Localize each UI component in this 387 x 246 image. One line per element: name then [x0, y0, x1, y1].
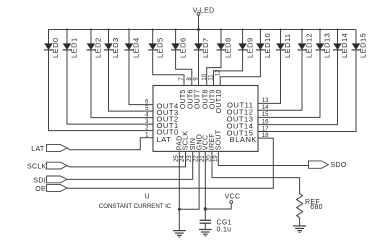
wire LED3 to pin 5 OUT3 — [109, 50, 154, 111]
junction V-LED rail — [66, 28, 339, 31]
wire LED1 to pin 3 OUT1 — [67, 50, 153, 124]
wire LED7 to pin 9 OUT7 — [198, 50, 200, 86]
LED D13 (LED13) — [316, 30, 332, 59]
resistor REF 680 — [297, 194, 323, 218]
wire LED0 to pin 2 OUT0 — [49, 50, 154, 131]
svg-text:SOUT: SOUT — [216, 129, 223, 150]
svg-text:LED13: LED13 — [323, 33, 332, 58]
capacitor CG1 0.1u — [200, 219, 232, 233]
LED D3 (LED3) — [104, 30, 120, 59]
LED D5 (LED5) — [148, 30, 164, 59]
wire LED14 to pin 16 OUT14 — [258, 50, 338, 125]
wire VCC terminal branch — [205, 204, 231, 209]
wire LAT to pin 1 — [67, 138, 153, 150]
wire PAD pin 25 down — [178, 151, 180, 230]
wire SCLK to pin 24 — [67, 151, 186, 167]
power terminal VCC — [225, 194, 241, 204]
port SDO — [309, 161, 347, 169]
wire SOUT pin 19 to SDO — [218, 151, 308, 165]
LED D15 (LED15) — [352, 30, 368, 59]
wire LED15 to pin 17 OUT15 — [258, 50, 356, 132]
pin numbers 13-18 right — [262, 98, 269, 139]
svg-text:SDI: SDI — [33, 178, 46, 185]
svg-text:LED15: LED15 — [359, 33, 368, 58]
LED D9 (LED9) — [238, 30, 254, 59]
pin numbers 1-6 left — [145, 99, 149, 138]
LED D11 (LED11) — [276, 30, 292, 59]
LED D1 (LED1) — [63, 30, 79, 59]
wire LED2 to pin 4 OUT2 — [91, 50, 153, 118]
IC pin names left OUT4-OUT0 LAT — [157, 102, 179, 144]
svg-text:V-LED: V-LED — [193, 7, 215, 14]
LED D10 (LED10) — [256, 30, 272, 59]
power terminal V-LED — [193, 7, 215, 29]
svg-text:SDO: SDO — [331, 162, 347, 169]
LED D12 (LED12) — [298, 30, 314, 59]
svg-text:12: 12 — [215, 69, 221, 76]
port OE — [35, 185, 67, 193]
wire LED13 to pin 15 OUT13 — [258, 50, 320, 118]
ground at REF — [293, 226, 306, 232]
wire VCC pin 21 down — [204, 151, 206, 220]
LED D7 (LED7) — [194, 30, 210, 59]
svg-text:LED1: LED1 — [70, 37, 79, 58]
svg-text:U: U — [145, 193, 150, 200]
wire GND pin 22 to PAD wire — [179, 151, 199, 209]
svg-text:0.1u: 0.1u — [217, 227, 232, 234]
IC pin names bottom PAD SCLK SIN GND VCC IREF SOUT — [177, 129, 223, 150]
IC pin names right OUT11-OUT15 BLANK — [227, 100, 257, 144]
svg-text:BLANK: BLANK — [230, 135, 257, 144]
IC reference designator U — [145, 193, 150, 200]
port SDI — [33, 176, 67, 185]
svg-text:LED2: LED2 — [94, 37, 103, 58]
svg-text:LED5: LED5 — [155, 37, 164, 58]
wire LED5 to pin 7 OUT5 — [153, 50, 184, 86]
wire LED12 to pin 14 OUT12 — [258, 50, 302, 110]
svg-text:10: 10 — [202, 73, 208, 80]
ground at CG1 — [199, 230, 212, 236]
ground at PAD — [173, 231, 186, 237]
svg-text:CONSTANT CURRENT IC: CONSTANT CURRENT IC — [99, 203, 171, 210]
wire V-LED anode rail — [49, 29, 357, 31]
svg-text:SCLK: SCLK — [183, 131, 190, 151]
LED D2 (LED2) — [87, 30, 103, 59]
wire LED4 to pin 6 OUT4 — [129, 50, 153, 105]
svg-text:LED4: LED4 — [132, 37, 141, 58]
svg-text:13: 13 — [262, 98, 269, 104]
LED D8 (LED8) — [217, 30, 233, 59]
svg-text:LED6: LED6 — [178, 37, 187, 58]
LED D0 (LED0) — [44, 30, 60, 59]
svg-text:LED7: LED7 — [201, 37, 210, 58]
svg-text:LED12: LED12 — [305, 33, 314, 58]
wire IREF pin 20 to REF — [212, 151, 300, 193]
wire CG1 to ground — [204, 223, 206, 229]
svg-text:680: 680 — [310, 204, 323, 211]
junction VCC node — [204, 207, 207, 210]
wire LED11 to pin 13 OUT11 — [258, 50, 281, 104]
svg-text:VCC: VCC — [225, 194, 241, 201]
op-amp U constant current LED driver IC body — [153, 86, 258, 152]
wire SDI to pin 23 SIN — [67, 151, 193, 179]
pin numbers 7-12 top — [179, 69, 221, 81]
IC description CONSTANT CURRENT IC — [99, 203, 171, 210]
svg-text:OUT5: OUT5 — [180, 89, 187, 109]
svg-text:LED11: LED11 — [283, 33, 292, 58]
svg-text:14: 14 — [262, 105, 269, 111]
svg-text:LED9: LED9 — [245, 37, 254, 58]
svg-text:LED3: LED3 — [111, 37, 120, 58]
junction GND-PAD — [178, 208, 181, 211]
svg-text:OE: OE — [35, 186, 46, 193]
wire LED8 to pin 10 OUT8 — [207, 50, 221, 86]
port LAT — [31, 145, 67, 153]
svg-text:LED0: LED0 — [51, 37, 60, 58]
wire REF to ground — [299, 218, 301, 226]
svg-text:SCLK: SCLK — [27, 163, 47, 170]
svg-text:LAT: LAT — [157, 135, 172, 144]
wire LED6 to pin 8 OUT6 — [176, 50, 192, 86]
LED D4 (LED4) — [125, 30, 141, 59]
svg-text:OUT10: OUT10 — [216, 89, 223, 113]
svg-text:17: 17 — [262, 126, 269, 132]
svg-text:LAT: LAT — [31, 146, 45, 153]
pin numbers 19-25 bottom — [174, 155, 219, 162]
wire OE to pin 18 BLANK — [67, 138, 273, 188]
LED D14 (LED14) — [333, 30, 349, 59]
svg-text:OUT7: OUT7 — [194, 89, 201, 109]
svg-text:LED14: LED14 — [340, 33, 349, 58]
svg-text:16: 16 — [262, 119, 269, 125]
svg-text:LED8: LED8 — [224, 37, 233, 58]
svg-text:CG1: CG1 — [217, 219, 232, 226]
svg-text:LED10: LED10 — [263, 33, 272, 58]
IC pin names top OUT5-OUT10 — [180, 89, 223, 113]
port SCLK — [27, 162, 67, 170]
LED D6 (LED6) — [171, 30, 187, 59]
svg-text:15: 15 — [262, 112, 269, 118]
wire LED9 to pin 11 OUT9 — [214, 50, 243, 86]
svg-text:11: 11 — [209, 74, 215, 81]
wire LED10 to pin 12 OUT10 — [220, 50, 260, 86]
